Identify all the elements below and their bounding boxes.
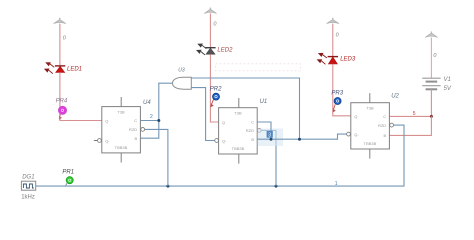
- svg-text:U4: U4: [143, 100, 151, 106]
- svg-text:U2: U2: [391, 93, 399, 99]
- battery V1: [422, 78, 440, 89]
- svg-text:RZD: RZD: [246, 128, 254, 133]
- wire clock to U1 CLK: [262, 130, 276, 186]
- svg-text:U1: U1: [260, 99, 268, 105]
- svg-text:Q-: Q-: [222, 138, 227, 143]
- power VCC arrow P3: [327, 18, 339, 24]
- svg-text:Q-: Q-: [354, 132, 359, 137]
- svg-text:B: B: [135, 136, 138, 141]
- wire U3 input2 to U1 Qbar: [191, 88, 214, 141]
- svg-text:U3: U3: [178, 68, 185, 74]
- selection halo net 3: [258, 129, 284, 147]
- svg-text:PR4: PR4: [56, 98, 68, 104]
- svg-text:LED1: LED1: [67, 67, 82, 73]
- svg-text:TBB3B: TBB3B: [232, 146, 245, 151]
- svg-text:0: 0: [213, 21, 217, 27]
- wire main clock net 1: [36, 125, 404, 186]
- junction clock-U1: [275, 185, 278, 188]
- svg-text:V1: V1: [444, 77, 451, 83]
- svg-text:Q: Q: [222, 120, 225, 125]
- junction net 3 at U3 input: [298, 138, 301, 141]
- svg-text:0: 0: [336, 32, 340, 38]
- svg-text:T3B: T3B: [234, 111, 242, 116]
- wire LED1 to U4 Q (corner at 59.9,120.5): [60, 72, 102, 120]
- net label 3 (selected): [267, 131, 273, 138]
- svg-text:TBB3B: TBB3B: [364, 141, 377, 146]
- wire P3 to LED3: [332, 24, 334, 57]
- probe PR1: [66, 177, 74, 186]
- probe PR2: [210, 93, 219, 107]
- wire LED3 to U2 Q (corner at 332.8,115.8): [333, 64, 351, 116]
- LED LED2 (off, gray): [196, 44, 216, 55]
- wire LED2 to U1 Q (corner at 210.4,122.0): [210, 54, 218, 122]
- wire P4 to V1: [430, 38, 432, 78]
- power VCC arrow P2: [204, 8, 216, 14]
- wire U4 C pin to net 2: [140, 120, 158, 122]
- svg-text:B: B: [384, 133, 387, 138]
- LED LED1: [44, 62, 65, 73]
- svg-text:RZD: RZD: [378, 123, 386, 128]
- junction net 3 at U1: [270, 138, 273, 141]
- junction net 2: [157, 119, 160, 122]
- svg-text:T3B: T3B: [366, 106, 374, 111]
- svg-text:5V: 5V: [444, 86, 452, 92]
- junction battery net: [430, 115, 433, 118]
- svg-text:C: C: [251, 120, 254, 125]
- power VCC arrow P1: [54, 18, 66, 24]
- svg-text:PR3: PR3: [331, 90, 343, 96]
- svg-text:1kHz: 1kHz: [21, 195, 35, 201]
- svg-text:B: B: [251, 137, 254, 142]
- wire P1 to LED1: [59, 24, 61, 66]
- svg-text:RZD: RZD: [129, 127, 137, 132]
- svg-text:TBB3B: TBB3B: [115, 145, 128, 150]
- svg-text:LED3: LED3: [340, 56, 356, 62]
- svg-text:2: 2: [150, 114, 153, 120]
- flip-flop U1: [215, 98, 261, 164]
- svg-text:LED2: LED2: [217, 48, 233, 54]
- junction clock-U4: [166, 185, 169, 188]
- probe PR4: [59, 106, 67, 120]
- probe PR3: [333, 98, 341, 113]
- wire P2 to LED2: [209, 13, 211, 47]
- wire battery down and left to U2 B pin: [389, 116, 431, 135]
- clock source DG1: [21, 181, 35, 190]
- flip-flop U4: [94, 97, 145, 163]
- LED LED3: [317, 53, 338, 64]
- wire U1 C pin loop to net 3: [257, 122, 271, 139]
- svg-text:1: 1: [335, 181, 338, 187]
- wire net 3: U1 B pin to U2 Qbar: [257, 134, 346, 139]
- svg-text:5: 5: [413, 111, 416, 117]
- svg-text:Q: Q: [354, 114, 357, 119]
- wire U3 input1 to net 3: [191, 78, 299, 139]
- wire U2 C pin to battery (net 5): [389, 115, 431, 117]
- svg-text:C: C: [383, 114, 386, 119]
- and-gate U3 (mirrored): [173, 77, 192, 89]
- svg-text:3: 3: [268, 133, 271, 139]
- svg-text:PR2: PR2: [210, 86, 222, 92]
- wire clock to U4 CLK: [145, 129, 168, 186]
- svg-text:Q: Q: [105, 118, 108, 123]
- svg-text:0: 0: [433, 53, 437, 59]
- svg-text:Q-: Q-: [105, 138, 110, 143]
- svg-text:T3B: T3B: [117, 110, 125, 115]
- svg-text:0: 0: [63, 35, 67, 41]
- flip-flop U2: [347, 93, 394, 159]
- power VCC arrow P4: [425, 32, 437, 38]
- selection marquee (faint dashed): [216, 64, 301, 71]
- svg-text:DG1: DG1: [22, 174, 34, 180]
- wire net 2: U3 output to U4 T and B pins: [140, 83, 172, 138]
- svg-text:C: C: [134, 118, 137, 123]
- svg-text:PR1: PR1: [62, 170, 74, 176]
- wire V1 minus down to junction: [430, 89, 432, 116]
